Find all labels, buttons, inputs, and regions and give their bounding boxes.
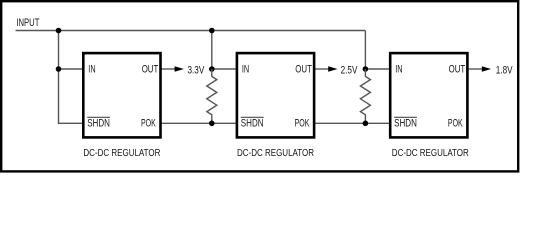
svg-text:3.3V: 3.3V — [188, 64, 205, 76]
wire U3 IN stub — [365, 68, 389, 70]
wire INPUT to U1 SHDN — [59, 69, 84, 123]
svg-text:OUT: OUT — [142, 64, 159, 76]
regulator U3 — [390, 53, 469, 159]
svg-text:INPUT: INPUT — [16, 17, 39, 29]
svg-text:DC-DC REGULATOR: DC-DC REGULATOR — [83, 148, 160, 159]
svg-text:DC-DC REGULATOR: DC-DC REGULATOR — [237, 148, 314, 159]
wire INPUT drop to U2 IN — [211, 31, 213, 70]
arrow 2.5V output — [328, 66, 337, 72]
wire INPUT drop to U1 IN — [58, 31, 60, 70]
wire U1 POK to U2 SHDN — [161, 122, 237, 124]
junction dot R1 to POK net — [209, 121, 215, 127]
regulator U2 — [237, 53, 314, 159]
junction dot U2 IN node — [209, 66, 215, 72]
svg-text:SHDN: SHDN — [87, 118, 110, 130]
junction dot U1 IN node — [56, 66, 62, 72]
wire INPUT rail — [16, 30, 366, 32]
svg-text:POK: POK — [295, 118, 310, 130]
svg-text:1.8V: 1.8V — [496, 64, 513, 76]
U1 body — [83, 53, 160, 137]
label 2.5V — [341, 64, 358, 76]
wire U3 OUT stub — [468, 68, 482, 70]
junction dot INPUT rail at U2 — [209, 28, 215, 34]
svg-text:2.5V: 2.5V — [341, 64, 358, 76]
label 3.3V — [188, 64, 205, 76]
resistor R2 pull-up — [360, 69, 370, 123]
resistor R1 pull-up — [207, 69, 217, 123]
U3 body — [390, 53, 467, 137]
wire U1 OUT stub — [161, 68, 175, 70]
wire U2 OUT stub — [315, 68, 329, 70]
node INPUT label — [16, 17, 39, 29]
svg-text:IN: IN — [395, 64, 402, 76]
svg-text:SHDN: SHDN — [394, 118, 417, 130]
wire U2 POK to U3 SHDN — [315, 122, 391, 124]
svg-text:OUT: OUT — [449, 64, 466, 76]
svg-text:DC-DC REGULATOR: DC-DC REGULATOR — [392, 148, 469, 159]
wire U1 IN stub — [59, 68, 84, 70]
svg-text:IN: IN — [242, 64, 249, 76]
junction dot INPUT rail at U1 — [56, 28, 62, 34]
arrow 1.8V output — [482, 66, 491, 72]
wire U2 IN stub — [212, 68, 237, 70]
svg-text:POK: POK — [141, 118, 156, 130]
svg-text:POK: POK — [448, 118, 463, 130]
svg-text:IN: IN — [88, 64, 95, 76]
regulator U1 — [83, 53, 160, 159]
junction dot U3 IN node — [363, 66, 369, 72]
junction dot R2 to POK net — [363, 121, 369, 127]
U2 body — [237, 53, 314, 137]
arrow 3.3V output — [175, 66, 184, 72]
svg-text:SHDN: SHDN — [241, 118, 264, 130]
svg-text:OUT: OUT — [295, 64, 312, 76]
label 1.8V — [496, 64, 513, 76]
wire INPUT drop to U3 IN — [364, 31, 366, 70]
